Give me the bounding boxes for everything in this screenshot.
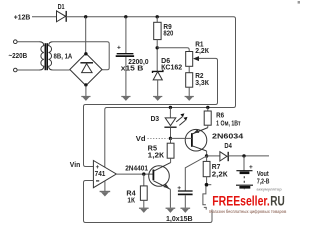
wire Q2 collector down to output node (206, 151, 208, 156)
svg-text:R6: R6 (216, 112, 224, 119)
svg-text:3,3К: 3,3К (195, 80, 209, 87)
svg-text:2N4401: 2N4401 (125, 166, 148, 173)
resistor R7 2,2K (203, 156, 228, 185)
LED D3 (151, 108, 188, 138)
svg-text:R7: R7 (212, 164, 221, 171)
svg-text:2N6034: 2N6034 (212, 133, 243, 140)
svg-text:D3: D3 (151, 116, 160, 123)
op-amp U1 741 (93, 161, 116, 188)
ground below R4 (139, 208, 149, 213)
ground below D6 (153, 80, 162, 101)
svg-text:Vin: Vin (70, 162, 81, 169)
wire reference node to R1 top (157, 48, 189, 52)
transistor Q2 2N6034 (185, 128, 243, 151)
diode D1 (57, 4, 67, 22)
resistor R9 820 (154, 17, 174, 46)
svg-text:820: 820 (163, 31, 173, 38)
svg-text:аккумулятор: аккумулятор (257, 187, 283, 192)
node output junction (205, 154, 208, 157)
transformer T1 primary terminals (14, 40, 18, 72)
wire primary top lead (17, 41, 39, 43)
node Vin label (70, 162, 81, 169)
wire D4 to output terminal (228, 155, 269, 157)
node junction bridge-top on rail (84, 15, 87, 18)
svg-text:D1: D1 (58, 4, 65, 11)
ground below C1 (121, 96, 130, 101)
svg-text:7,2-В: 7,2-В (257, 179, 270, 186)
resistor R5 1,2K (148, 138, 174, 162)
svg-text:1 Ом, 1Вт: 1 Ом, 1Вт (216, 121, 241, 128)
bridge rectifier VD (70, 52, 102, 87)
svg-text:~220В: ~220В (9, 53, 28, 60)
resistor R4 1K (126, 174, 147, 208)
zener D6 KC162 (153, 50, 183, 80)
wire secondary bottom lead to bridge left corner (53, 69, 70, 71)
node junction cap2200 on rail (124, 15, 127, 18)
capacitor C1 2200,0 x15V (116, 17, 149, 96)
node +12V label (14, 14, 31, 21)
wire secondary top loop to bridge right corner (53, 42, 109, 70)
svg-text:2,2К: 2,2К (195, 48, 209, 55)
wire top rail from D1 to right corner, down to +12V feed line (66, 17, 235, 170)
ground below R2 (185, 96, 194, 101)
svg-text:Магазин бесплатных цифровых то: Магазин бесплатных цифровых товаров (209, 208, 286, 214)
wire feedback from op-amp - input down and along bottom (84, 181, 213, 223)
node junction battery (242, 154, 245, 157)
svg-text:2,2К: 2,2К (212, 171, 229, 178)
transformer T1 windings and core, label 8V 1A (40, 42, 73, 70)
ground at op-amp V- (100, 181, 111, 197)
node junction R7 bottom (205, 183, 209, 187)
wire primary bottom lead (17, 69, 39, 71)
wire stub right of R7 node (208, 184, 211, 186)
resistor R2 3,3K (186, 66, 210, 96)
svg-text:Vd: Vd (136, 136, 146, 143)
svg-text:1К: 1К (127, 197, 135, 204)
svg-text:х15 В: х15 В (121, 66, 144, 73)
svg-text:1,2К: 1,2К (148, 153, 165, 160)
transistor Q1 2N4401 (125, 163, 170, 190)
svg-text:R5: R5 (148, 145, 157, 152)
node Vd label and dotted leader (136, 136, 168, 143)
svg-text:R4: R4 (126, 190, 135, 197)
node Vout label (257, 171, 283, 191)
node ~220V label (9, 53, 28, 60)
svg-text:D4: D4 (224, 143, 231, 150)
wire Q2 base from Vd node (170, 137, 192, 139)
diode D4 (220, 143, 232, 161)
wire output node diagonal to C2 (185, 156, 206, 191)
svg-text:+: + (249, 164, 253, 171)
wire fragments below R7 node (cut by logo) (203, 186, 206, 209)
wire from top rail down to bridge (85, 17, 87, 53)
node Vd junction (169, 137, 172, 140)
node junction R9/D6 reference (156, 46, 159, 49)
node Vd dot on +12V feed line (169, 106, 172, 109)
svg-text:1,0х15В: 1,0х15В (166, 216, 193, 223)
potentiometer R1 2,2K (186, 42, 210, 67)
svg-text:КС162: КС162 (161, 65, 182, 72)
corner artifact top right (298, 1, 300, 4)
svg-text:+: + (117, 45, 121, 52)
wire output node to D4 (207, 155, 220, 157)
svg-text:FREEseller.: FREEseller. (212, 194, 269, 209)
node R6 dot on +12V feed line (206, 106, 209, 109)
wire op-amp output to Q1 base (116, 173, 153, 175)
svg-text:8В, 1А: 8В, 1А (54, 53, 73, 60)
ground below bridge (81, 86, 90, 101)
battery GB1 7,2V (236, 156, 253, 189)
logo FREEseller.RU (209, 194, 286, 215)
svg-text:+12В: +12В (14, 14, 31, 21)
capacitor C2 1,0x15V (166, 185, 193, 223)
node junction R9 on rail (156, 15, 159, 18)
wire R1 wiper to op-amp + input (84, 58, 218, 166)
ground below C2 (180, 208, 190, 213)
wire top rail left of D1 (32, 16, 56, 18)
resistor R6 1 Ohm 1W (204, 108, 241, 128)
svg-text:Vout: Vout (257, 171, 269, 178)
wire Q1 emitter down (169, 189, 171, 208)
svg-text:RU: RU (270, 194, 285, 209)
svg-text:741: 741 (95, 169, 106, 178)
ground below Q1 emitter (166, 208, 176, 213)
node junction output/R4 (142, 172, 145, 175)
